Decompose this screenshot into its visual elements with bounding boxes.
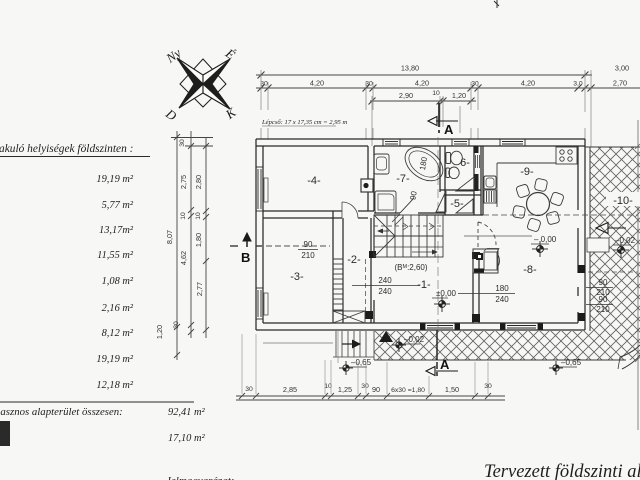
svg-text:1,20: 1,20	[155, 325, 164, 339]
svg-text:2,90: 2,90	[399, 91, 413, 100]
kitchen stove hatch	[484, 190, 496, 203]
svg-text:–0,02: –0,02	[404, 335, 425, 344]
doormat on terrace 10	[587, 238, 609, 252]
room5 bottom edge	[445, 214, 483, 216]
svg-text:240: 240	[378, 276, 392, 285]
svg-text:1,50: 1,50	[445, 385, 459, 394]
svg-text:±0,00: ±0,00	[436, 289, 457, 298]
door swing room4	[342, 202, 358, 218]
svg-text:10: 10	[195, 212, 202, 220]
labels	[245, 383, 492, 394]
wall bath/wc vertical	[439, 146, 441, 192]
left text block	[0, 143, 234, 480]
svg-text:2,85: 2,85	[283, 385, 297, 394]
svg-text:240: 240	[495, 295, 509, 304]
dim line 30/420 chain	[256, 87, 640, 89]
svg-text:30: 30	[260, 80, 268, 87]
svg-text:–0,65: –0,65	[561, 358, 582, 367]
svg-text:1,80: 1,80	[194, 233, 203, 247]
chimney ladder	[333, 259, 343, 310]
svg-text:6-: 6-	[460, 157, 470, 169]
window bottom wall room8	[505, 323, 538, 330]
bath bottom wall	[374, 212, 400, 214]
svg-text:hasznos alapterület összesen:: hasznos alapterület összesen:	[0, 406, 123, 418]
separator rule	[0, 401, 194, 403]
toilet	[446, 151, 462, 165]
bath sink lower	[375, 191, 396, 213]
window top wall wc	[452, 139, 469, 146]
chain line middle	[190, 131, 192, 338]
wall room2 right vertical	[370, 218, 372, 323]
bottom dimension chain	[236, 334, 505, 400]
section marker A top	[428, 103, 458, 137]
bath door leaf	[400, 198, 414, 213]
svg-text:-8-: -8-	[523, 264, 537, 276]
top dimension chains	[256, 0, 640, 147]
kitchen open boundary dashed	[483, 214, 638, 216]
compass star NE arm	[203, 59, 230, 84]
terrace door arrow	[596, 223, 626, 234]
svg-text:90: 90	[599, 295, 608, 304]
elevation marker 0,00 room8	[531, 235, 557, 257]
svg-text:-10-: -10-	[613, 195, 633, 207]
svg-text:A: A	[440, 357, 450, 372]
svg-text:–0,65: –0,65	[351, 358, 372, 367]
wc bottom wall	[440, 189, 481, 191]
chair top-left	[516, 184, 530, 198]
right edge dim line	[635, 120, 640, 430]
furniture	[264, 140, 577, 323]
svg-text:19,19 m²: 19,19 m²	[96, 354, 133, 365]
jamb marks bottom wall	[420, 324, 425, 330]
svg-text:30: 30	[245, 386, 253, 393]
pillar room1/8 bottom	[472, 314, 480, 322]
svg-text:1,25: 1,25	[338, 385, 352, 394]
bathtub	[399, 140, 449, 187]
cooktop	[556, 147, 577, 164]
mid wall horizontal left wing	[263, 210, 342, 212]
svg-text:240: 240	[378, 287, 392, 296]
svg-text:1,08 m²: 1,08 m²	[102, 276, 134, 287]
svg-text:17,10 m²: 17,10 m²	[168, 433, 205, 444]
svg-text:– 0,00: – 0,00	[534, 235, 557, 244]
svg-text:19,19 m²: 19,19 m²	[96, 174, 133, 185]
fireplace stove	[473, 249, 500, 274]
radiator left wall lower	[264, 293, 268, 315]
chair bottom-right	[546, 211, 560, 225]
svg-text:11,55 m²: 11,55 m²	[97, 250, 134, 261]
dim line 2,90 10 1,20	[370, 100, 476, 102]
svg-text:30: 30	[365, 80, 373, 87]
window label 180/240	[458, 284, 515, 304]
chain line	[236, 395, 505, 397]
svg-text:12,18 m²: 12,18 m²	[96, 380, 133, 391]
porch steps left	[333, 331, 374, 357]
window bottom wall room1	[425, 323, 455, 330]
chain line right	[205, 137, 207, 338]
svg-text:2,16 m²: 2,16 m²	[102, 303, 134, 314]
svg-text:Lépcső: 17 x 17,35 cm = 2,95 m: Lépcső: 17 x 17,35 cm = 2,95 m	[261, 119, 347, 126]
dining table	[527, 193, 550, 216]
pillar room1/8 top	[472, 252, 480, 259]
pillar room2 corner	[365, 311, 373, 319]
compass star SE arm	[203, 84, 230, 109]
rotated dims	[155, 139, 204, 339]
svg-text:92,41 m²: 92,41 m²	[168, 407, 205, 418]
outer wall top	[256, 138, 585, 140]
door label 90/210 right lower	[586, 295, 613, 314]
entrance triangle mark bottom	[379, 331, 393, 342]
step edge below left wing	[263, 342, 333, 344]
svg-text:-9-: -9-	[520, 166, 534, 178]
pillar right wall mid	[578, 265, 585, 273]
svg-text:180: 180	[495, 284, 509, 293]
pillar stair corner	[369, 251, 376, 258]
duct wall vertical	[473, 146, 475, 215]
svg-text:4,62: 4,62	[179, 251, 188, 265]
svg-text:A: A	[444, 122, 454, 137]
section A line bottom	[426, 137, 458, 376]
chair right	[550, 192, 565, 207]
elevation marker -0,65 left	[338, 330, 372, 375]
svg-text:1,20: 1,20	[452, 91, 466, 100]
svg-text:13,80: 13,80	[401, 64, 419, 73]
svg-text:90: 90	[599, 278, 608, 287]
heading underline	[0, 156, 150, 158]
dim line 13,80	[256, 74, 592, 76]
svg-text:4,20: 4,20	[521, 78, 535, 87]
elevation marker -0,02 terrace10	[613, 236, 636, 258]
section marker B	[230, 233, 330, 265]
extension lines top	[261, 70, 591, 147]
svg-text:2,75: 2,75	[179, 175, 188, 189]
room5 triangle lower	[456, 199, 473, 213]
window left wall lower	[256, 288, 263, 319]
title	[484, 462, 640, 480]
svg-text:30: 30	[173, 321, 180, 329]
svg-text:-4-: -4-	[307, 175, 321, 187]
chair top	[534, 178, 548, 192]
left dimension chains	[155, 131, 330, 360]
svg-text:30: 30	[179, 139, 186, 147]
svg-text:-5-: -5-	[450, 198, 464, 210]
chimney base crossed box	[333, 311, 365, 323]
kitchen counter edge	[496, 163, 498, 207]
svg-text:Jelmagyarázat:: Jelmagyarázat:	[166, 475, 234, 480]
duct dark fill	[474, 146, 479, 153]
porch entrance arrow	[342, 340, 361, 349]
svg-text:2,70: 2,70	[613, 78, 627, 87]
pillar right wall bottom	[578, 313, 585, 321]
chimney wall room2/3	[332, 211, 334, 323]
legend mark cut off bottom-left	[0, 421, 10, 446]
svg-text:-1-: -1-	[417, 279, 431, 291]
ticks	[239, 393, 245, 399]
hatches	[263, 120, 640, 430]
chair left	[512, 205, 525, 218]
bath sink upper	[374, 154, 389, 174]
svg-text:5,77 m²: 5,77 m²	[102, 200, 134, 211]
svg-text:3,0: 3,0	[573, 80, 583, 87]
compass diamond outline	[180, 59, 226, 107]
compass star NW arm	[177, 58, 203, 84]
terrace corner arc steps	[620, 345, 640, 357]
svg-text:8,12 m²: 8,12 m²	[102, 328, 134, 339]
outer wall left	[255, 139, 257, 330]
room5 triangle left	[436, 191, 446, 212]
svg-text:30: 30	[361, 383, 369, 390]
room5 triangle upper	[456, 177, 474, 191]
door label 90/210 right upper	[586, 278, 613, 297]
extension lines	[242, 334, 488, 394]
connector top	[171, 137, 213, 139]
compass star SW arm	[179, 84, 203, 108]
svg-text:-7-: -7-	[396, 173, 410, 185]
door swing room8 dashed	[478, 222, 496, 245]
window label 240/240	[352, 276, 420, 296]
terrace 10 hatch	[590, 147, 640, 331]
outer wall right	[584, 139, 586, 330]
terrace bottom hatch	[374, 331, 640, 360]
elevation marker -0,65 right	[549, 358, 582, 375]
svg-text:-2-: -2-	[347, 254, 361, 266]
window top wall bath	[383, 139, 400, 146]
svg-text:4,20: 4,20	[310, 78, 324, 87]
window left wall upper	[256, 167, 263, 211]
labels and markers	[290, 156, 640, 375]
svg-text:Tervezett földszinti al: Tervezett földszinti al	[484, 462, 640, 480]
svg-text:10: 10	[432, 90, 440, 97]
washing machine box	[361, 179, 373, 192]
room label 10	[606, 192, 640, 206]
elevation marker -0,02 porch	[392, 335, 425, 352]
wall room4/bath vertical	[367, 146, 369, 211]
svg-text:2,77: 2,77	[195, 282, 204, 296]
svg-text:210: 210	[301, 251, 315, 260]
svg-text:210: 210	[596, 305, 610, 314]
svg-text:13,17m²: 13,17m²	[99, 225, 134, 236]
outer wall bottom	[256, 329, 585, 331]
staircase	[374, 214, 443, 257]
chain line 8,07	[176, 131, 178, 360]
radiator left wall upper	[264, 178, 268, 202]
compass rose	[162, 45, 239, 124]
bidet	[446, 167, 459, 179]
svg-text:(BM:2,60): (BM:2,60)	[394, 263, 427, 272]
wall room1/room8 vertical	[472, 252, 474, 323]
svg-text:akuló helyiségek földszinten :: akuló helyiségek földszinten :	[0, 143, 133, 155]
window top wall kitchen	[500, 139, 525, 146]
kitchen sink	[484, 176, 496, 189]
door label 90/210 room4	[298, 240, 318, 260]
svg-text:4,20: 4,20	[415, 78, 429, 87]
svg-text:–0,02: –0,02	[615, 236, 636, 245]
svg-text:3,00: 3,00	[615, 64, 629, 73]
svg-text:B: B	[241, 250, 250, 265]
leader line 0,00 room8	[464, 235, 532, 237]
svg-text:90: 90	[372, 385, 380, 394]
chair bottom	[527, 218, 541, 232]
elevation marker 0,00 room1	[432, 289, 457, 312]
svg-text:8,07: 8,07	[165, 230, 174, 244]
svg-text:90: 90	[304, 240, 313, 249]
svg-text:10: 10	[180, 212, 187, 220]
lintel dashes over terrace	[588, 271, 638, 273]
svg-text:-3-: -3-	[290, 271, 304, 283]
svg-text:2,80: 2,80	[194, 175, 203, 189]
svg-text:6x30 =1,80: 6x30 =1,80	[391, 387, 425, 394]
plan walls	[256, 139, 638, 330]
